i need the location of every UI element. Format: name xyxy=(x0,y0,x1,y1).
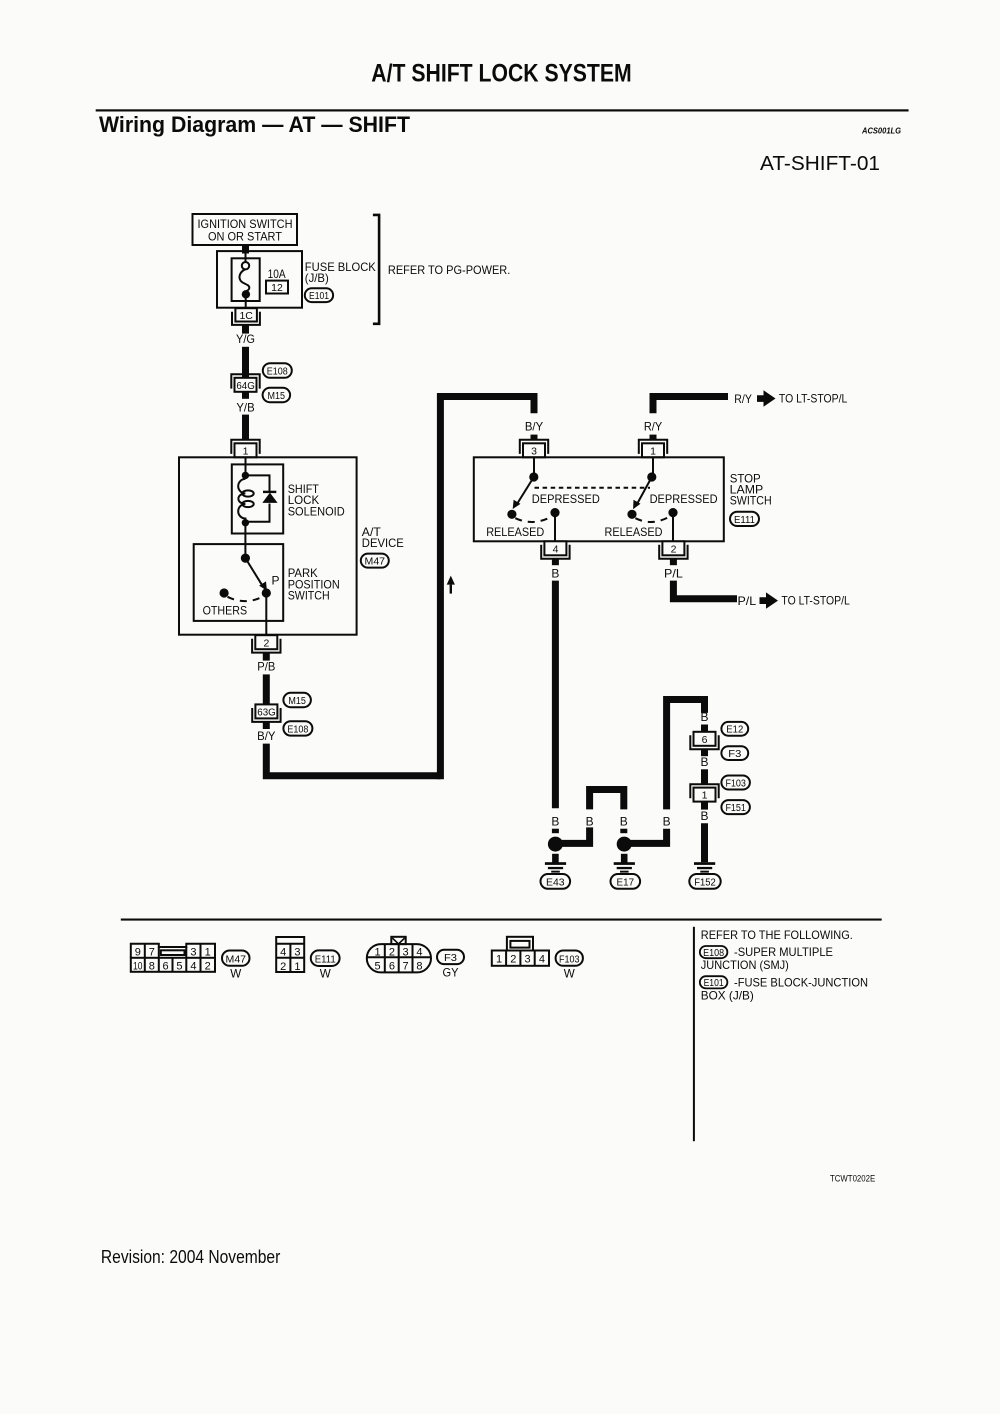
svg-text:P/L: P/L xyxy=(664,566,683,580)
svg-text:(J/B): (J/B) xyxy=(305,271,329,285)
svg-text:-SUPER MULTIPLE: -SUPER MULTIPLE xyxy=(734,945,833,959)
svg-text:5: 5 xyxy=(176,961,182,973)
svg-text:-FUSE BLOCK-JUNCTION: -FUSE BLOCK-JUNCTION xyxy=(734,976,868,990)
fuse block outer box xyxy=(217,251,302,308)
solenoid bottom node xyxy=(242,519,249,526)
wire link into E17 xyxy=(620,829,627,834)
wire pin1 to solenoid xyxy=(245,457,247,475)
svg-text:1: 1 xyxy=(702,790,708,802)
left movable contact arrow xyxy=(517,477,534,504)
SMJ 64G box xyxy=(235,378,257,392)
svg-text:SWITCH: SWITCH xyxy=(288,589,330,603)
wire left depressed contact to pin 4 xyxy=(554,513,556,542)
left pole node xyxy=(529,472,538,481)
ground junction node E17 xyxy=(617,837,632,852)
svg-text:9: 9 xyxy=(135,947,141,959)
connector 1 box (A/T device) xyxy=(235,443,257,457)
svg-text:4: 4 xyxy=(539,953,545,965)
diode D1 branch wires xyxy=(245,475,269,521)
svg-text:7: 7 xyxy=(149,947,155,959)
svg-text:2: 2 xyxy=(263,637,269,649)
shift lock solenoid box xyxy=(232,464,283,533)
connector ref E108 (63G) xyxy=(283,721,312,735)
svg-text:REFER TO PG-POWER.: REFER TO PG-POWER. xyxy=(388,263,510,277)
svg-text:R/Y: R/Y xyxy=(734,392,752,406)
svg-text:1: 1 xyxy=(496,953,502,965)
svg-text:1: 1 xyxy=(294,961,300,973)
left DEPRESSED contact xyxy=(550,508,559,517)
connector face F103 xyxy=(492,937,549,966)
svg-text:AT-SHIFT-01: AT-SHIFT-01 xyxy=(760,153,880,175)
svg-text:E17: E17 xyxy=(617,878,635,889)
wire P/L corner to LT-STOP/L xyxy=(673,581,737,599)
connector 1 bracket (stop lamp) xyxy=(639,440,667,454)
connector 2 box (A/T device) xyxy=(255,635,277,649)
connector ref M15 xyxy=(263,388,291,402)
wire B down to ground E43 xyxy=(552,581,559,809)
svg-text:F3: F3 xyxy=(444,953,457,964)
svg-text:B: B xyxy=(701,755,709,769)
svg-text:M47: M47 xyxy=(226,955,247,966)
svg-text:TO LT-STOP/L: TO LT-STOP/L xyxy=(781,594,850,608)
svg-text:F3: F3 xyxy=(728,749,741,760)
connector 1 bracket (A/T device) xyxy=(231,440,259,454)
svg-text:1: 1 xyxy=(650,445,656,457)
fuse number 12 box xyxy=(266,281,288,294)
svg-text:TCWT0202E: TCWT0202E xyxy=(830,1173,875,1184)
svg-text:F103: F103 xyxy=(725,779,746,790)
svg-text:DEPRESSED: DEPRESSED xyxy=(532,492,600,506)
solenoid coil xyxy=(238,479,245,520)
svg-text:4: 4 xyxy=(190,961,196,973)
svg-text:M47: M47 xyxy=(365,557,386,568)
svg-text:E108: E108 xyxy=(267,367,288,378)
svg-text:E108: E108 xyxy=(287,724,308,735)
svg-text:Y/B: Y/B xyxy=(236,400,254,414)
svg-text:Y/G: Y/G xyxy=(236,332,255,346)
connector ref F151 xyxy=(721,800,750,814)
park position switch box xyxy=(194,544,284,621)
svg-text:B: B xyxy=(551,814,559,828)
svg-text:5: 5 xyxy=(375,961,381,973)
connector 1 box (F103/F151) xyxy=(694,788,716,802)
bottom rule xyxy=(121,919,882,921)
connector ref M47 xyxy=(361,554,389,568)
svg-text:10: 10 xyxy=(133,961,143,973)
left pole wire from pin 3 xyxy=(533,457,535,477)
svg-text:W: W xyxy=(564,967,576,981)
svg-text:3: 3 xyxy=(190,947,196,959)
wire P contact to pin 2 xyxy=(265,593,267,635)
svg-text:1: 1 xyxy=(375,946,381,958)
mechanical link dashed line xyxy=(535,487,651,489)
wire B/Y down and right to junction riser xyxy=(266,744,440,776)
wire stub below connector 4 xyxy=(552,559,559,566)
riser wire B/Y up to stop lamp switch xyxy=(437,397,534,776)
svg-text:2: 2 xyxy=(389,946,395,958)
footnote ref E101 xyxy=(700,976,728,988)
fuse holder inner box xyxy=(232,258,260,301)
connector ref F103 (face) xyxy=(556,951,583,966)
dashed throw arc xyxy=(228,597,263,601)
svg-text:6: 6 xyxy=(702,734,708,746)
svg-text:B: B xyxy=(701,710,709,724)
right pole node xyxy=(647,472,656,481)
svg-text:F151: F151 xyxy=(725,803,746,814)
ignition switch box xyxy=(193,214,298,245)
svg-text:BOX (J/B): BOX (J/B) xyxy=(701,989,754,1003)
svg-text:B: B xyxy=(701,809,709,823)
wire Y/B xyxy=(242,415,249,440)
connector ref E12 xyxy=(721,722,748,736)
svg-text:B/Y: B/Y xyxy=(257,729,275,743)
park switch movable contact arrow xyxy=(245,558,262,585)
arrow to LT-STOP/L (bottom) xyxy=(760,592,779,608)
svg-text:B: B xyxy=(551,566,559,580)
svg-text:P/L: P/L xyxy=(738,594,757,608)
svg-text:W: W xyxy=(230,967,242,981)
ground symbol F152 xyxy=(694,862,715,865)
svg-text:SWITCH: SWITCH xyxy=(730,493,772,507)
wire stub below 64G xyxy=(242,392,249,399)
svg-text:E101: E101 xyxy=(309,291,329,302)
svg-text:F103: F103 xyxy=(559,955,580,966)
stop lamp switch box xyxy=(474,457,724,541)
svg-text:E111: E111 xyxy=(734,515,755,526)
right pole wire from pin 1 xyxy=(652,457,654,477)
svg-text:3: 3 xyxy=(531,445,537,457)
svg-text:2: 2 xyxy=(205,961,211,973)
connector ref E111 xyxy=(730,512,759,526)
connector 1C xyxy=(235,308,257,321)
connector 3 bracket (stop lamp) xyxy=(520,440,548,454)
wire stub below connector 2 xyxy=(670,559,677,566)
SMJ 63G bracket xyxy=(252,708,280,722)
wire E43 to E17 link (left) xyxy=(560,827,590,843)
svg-text:SOLENOID: SOLENOID xyxy=(288,504,345,518)
wire R/Y corner to LT-STOP/L xyxy=(653,397,728,414)
diode D1 xyxy=(263,491,276,493)
park switch common node xyxy=(241,554,250,563)
svg-text:E101: E101 xyxy=(704,978,724,989)
svg-text:Revision: 2004 November: Revision: 2004 November xyxy=(101,1247,280,1267)
svg-text:2: 2 xyxy=(671,543,677,555)
left RELEASED contact xyxy=(507,510,516,519)
svg-text:8: 8 xyxy=(149,961,155,973)
connector ref E111 (face) xyxy=(311,950,340,966)
svg-text:REFER TO THE FOLLOWING.: REFER TO THE FOLLOWING. xyxy=(701,928,853,942)
svg-text:JUNCTION (SMJ): JUNCTION (SMJ) xyxy=(701,958,789,972)
svg-text:63G: 63G xyxy=(257,707,276,718)
header rule xyxy=(96,109,909,111)
ground ref F152 xyxy=(689,874,720,889)
svg-text:12: 12 xyxy=(271,282,283,294)
svg-text:6: 6 xyxy=(389,961,395,973)
wire stub below 63G xyxy=(263,722,270,729)
svg-text:P/B: P/B xyxy=(257,660,275,674)
svg-text:DEVICE: DEVICE xyxy=(362,536,404,550)
connector 6 box (E12/F3) xyxy=(694,732,716,746)
svg-text:1: 1 xyxy=(243,445,249,457)
wire between connectors xyxy=(701,769,708,784)
flow direction arrow xyxy=(447,576,455,585)
ground symbol E17 xyxy=(621,854,628,863)
right movable contact arrow xyxy=(637,477,652,504)
wire E43 to E17 link (top) xyxy=(590,790,624,810)
connector ref E101 xyxy=(305,288,333,302)
wire P/B xyxy=(263,674,270,704)
svg-text:8: 8 xyxy=(416,961,422,973)
park switch P contact xyxy=(262,588,271,597)
ground ref E17 xyxy=(611,874,641,889)
right DEPRESSED contact xyxy=(668,508,677,517)
svg-text:ACS001LG: ACS001LG xyxy=(861,127,901,136)
svg-text:M15: M15 xyxy=(288,696,306,707)
svg-text:B/Y: B/Y xyxy=(525,419,543,433)
SMJ 64G bracket xyxy=(231,374,259,388)
arrow to LT-STOP/L (top) xyxy=(757,390,776,406)
ground junction node E43 xyxy=(548,837,563,852)
svg-text:TO LT-STOP/L: TO LT-STOP/L xyxy=(779,392,848,406)
wire ignition to fuse block xyxy=(242,245,249,254)
svg-text:4: 4 xyxy=(280,946,286,958)
connector ref M15 (63G) xyxy=(283,693,311,707)
svg-text:R/Y: R/Y xyxy=(644,419,662,433)
svg-text:6: 6 xyxy=(163,961,169,973)
wire stub above connector 6 xyxy=(701,725,708,732)
connector ref F3 (face) xyxy=(437,950,464,964)
svg-text:RELEASED: RELEASED xyxy=(605,525,663,539)
svg-text:3: 3 xyxy=(294,946,300,958)
wire Y/G xyxy=(242,347,249,378)
wire stub below connector 2 xyxy=(263,653,270,661)
wire into ground F152 xyxy=(701,823,708,862)
svg-text:1: 1 xyxy=(205,947,211,959)
fuse 10A symbol xyxy=(245,252,247,262)
ground ref E43 xyxy=(541,874,571,889)
connector 1 box (stop lamp) xyxy=(642,443,664,457)
A/T device box xyxy=(179,457,357,634)
svg-text:10A: 10A xyxy=(268,267,286,281)
right RELEASED contact xyxy=(627,510,636,519)
connector face F3 xyxy=(367,937,431,973)
svg-text:A/T SHIFT LOCK SYSTEM: A/T SHIFT LOCK SYSTEM xyxy=(371,60,631,88)
svg-text:4: 4 xyxy=(553,543,559,555)
svg-text:RELEASED: RELEASED xyxy=(486,525,544,539)
svg-text:Wiring Diagram — AT — SHIFT: Wiring Diagram — AT — SHIFT xyxy=(99,112,411,137)
svg-text:4: 4 xyxy=(416,946,422,958)
svg-text:E111: E111 xyxy=(315,955,336,966)
svg-text:OTHERS: OTHERS xyxy=(203,604,248,618)
svg-text:B: B xyxy=(620,814,628,828)
wire stub below connector 1 xyxy=(701,802,708,810)
svg-text:B: B xyxy=(586,814,594,828)
svg-text:3: 3 xyxy=(525,953,531,965)
svg-text:F152: F152 xyxy=(694,878,716,889)
connector ref E108 xyxy=(263,363,292,378)
connector 1 bracket (F103/F151) xyxy=(690,784,718,798)
svg-text:1C: 1C xyxy=(239,310,253,322)
svg-text:E43: E43 xyxy=(546,878,565,889)
park switch OTHERS contact xyxy=(220,588,229,597)
connector 2 box (stop lamp) xyxy=(662,541,684,555)
svg-text:B: B xyxy=(663,814,671,828)
svg-text:2: 2 xyxy=(510,953,516,965)
SMJ 63G box xyxy=(255,704,277,718)
left dashed throw arc xyxy=(515,517,551,522)
connector face E111 xyxy=(276,937,304,972)
solenoid top node xyxy=(242,472,249,479)
wire solenoid to park switch xyxy=(244,523,246,558)
connector ref F3 xyxy=(721,746,748,760)
connector ref M47 (face) xyxy=(222,951,250,966)
svg-text:P: P xyxy=(272,573,280,587)
svg-text:M15: M15 xyxy=(268,391,286,402)
connector 4 box (stop lamp) xyxy=(544,541,566,555)
refer-to bracket xyxy=(373,215,379,324)
connector ref F103 xyxy=(721,776,750,790)
svg-text:2: 2 xyxy=(280,961,286,973)
svg-text:E12: E12 xyxy=(726,725,743,736)
svg-text:ON OR START: ON OR START xyxy=(208,230,283,244)
wire stub below 1C xyxy=(242,325,249,334)
connector 3 box (stop lamp) xyxy=(523,443,545,457)
wire chain riser and top xyxy=(667,700,705,810)
wire right depressed contact to pin 2 xyxy=(672,513,674,542)
wire E17 to body ground chain xyxy=(629,829,667,844)
svg-text:GY: GY xyxy=(443,966,459,980)
connector face M47 xyxy=(131,944,215,972)
footnote divider xyxy=(693,927,695,1141)
right dashed throw arc xyxy=(635,517,669,522)
svg-text:64G: 64G xyxy=(236,381,255,392)
footnote ref E108 xyxy=(700,946,728,958)
svg-text:3: 3 xyxy=(403,946,409,958)
svg-text:W: W xyxy=(320,967,332,981)
wire stub below connector 6 xyxy=(701,749,708,756)
ground symbol E43 xyxy=(552,854,559,863)
svg-text:DEPRESSED: DEPRESSED xyxy=(650,492,718,506)
svg-text:7: 7 xyxy=(403,961,409,973)
